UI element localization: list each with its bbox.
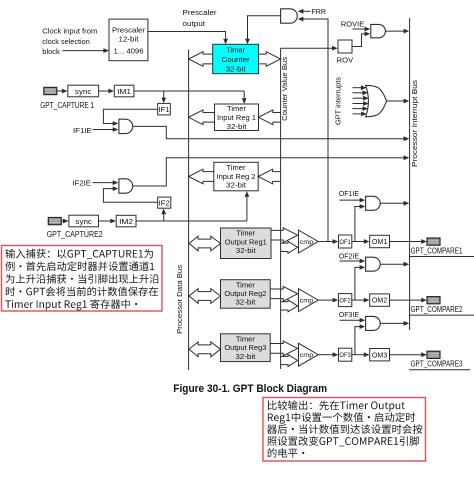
interrupt source 4 (353, 103, 365, 105)
pad GPT_CAPTURE2 (48, 218, 61, 225)
wire into input reg 1 top (243, 91, 245, 99)
svg-text:IF2IE: IF2IE (72, 179, 91, 188)
svg-text:OF1: OF1 (339, 239, 351, 246)
svg-text:cmp: cmp (300, 239, 314, 246)
wire cmp1 to OF1 (318, 241, 333, 243)
svg-text:Figure 30-1. GPT Block Diagram: Figure 30-1. GPT Block Diagram (173, 383, 327, 395)
svg-text:ROV: ROV (337, 56, 354, 65)
svg-text:clock selection: clock selection (42, 37, 90, 46)
bus arrow counter value to input reg 1 (259, 110, 281, 125)
pad GPT_COMPARE1 (427, 238, 440, 245)
or-gate GPT interrupts (366, 85, 387, 116)
svg-text:IF2: IF2 (159, 199, 170, 208)
bus arrow input reg 2 to data bus (189, 169, 214, 184)
svg-text:32-bit: 32-bit (226, 64, 247, 73)
svg-text:Counter Value Bus: Counter Value Bus (280, 57, 289, 121)
svg-text:32-bit: 32-bit (235, 352, 256, 361)
wire FRR (302, 10, 311, 12)
svg-text:block: block (42, 47, 60, 56)
svg-text:IM1: IM1 (117, 87, 131, 96)
svg-text:IF1: IF1 (159, 105, 170, 114)
svg-text:Prescaler: Prescaler (183, 8, 217, 17)
svg-text:FRR: FRR (312, 7, 327, 16)
wire clock to prescaler (62, 50, 104, 52)
svg-text:Processor Data Bus: Processor Data Bus (175, 265, 184, 334)
wire OF1 output up to gate (355, 207, 361, 242)
gate ROV AND ROVIE (371, 24, 386, 37)
gate OF3 AND OF3IE (366, 316, 381, 330)
svg-text:GPT_CAPTURE2: GPT_CAPTURE2 (47, 230, 103, 239)
wire IF1 to gate (103, 109, 157, 123)
svg-text:OF1IE: OF1IE (339, 189, 359, 198)
svg-text:OF3IE: OF3IE (339, 310, 359, 319)
svg-text:sync: sync (75, 87, 92, 96)
svg-text:Timer: Timer (227, 163, 246, 172)
annotation box: compare output (Chinese) (263, 398, 426, 462)
timer output reg3 (221, 334, 271, 362)
svg-text:Timer: Timer (226, 46, 245, 55)
comparator cmp3 (299, 343, 319, 366)
OM1 box (370, 235, 390, 247)
svg-text:IF1IE: IF1IE (73, 126, 92, 135)
svg-text:12-bit: 12-bit (119, 35, 140, 44)
svg-text:1... 4096: 1... 4096 (114, 46, 144, 55)
counter value bus line (280, 48, 282, 369)
wire IF1IE to gate (93, 129, 114, 131)
svg-text:OF3: OF3 (339, 352, 351, 359)
svg-text:Counter: Counter (222, 55, 250, 64)
comparator cmp1 (299, 230, 319, 253)
OM3 box (370, 349, 390, 361)
pad GPT_CAPTURE 1 (44, 87, 57, 94)
OM2 box (370, 294, 390, 306)
bus arrow output reg2 to cmp2 (270, 286, 297, 301)
bus arrow counter value to input reg 2 (258, 169, 280, 184)
wire compare2 interrupt to bus (380, 263, 404, 265)
wire IM2 up to IF2 (163, 213, 165, 221)
gate OF1 AND OF1IE (366, 196, 381, 210)
wire compare3 interrupt to bus (380, 322, 404, 324)
wire sync1 to IM1 (99, 90, 110, 92)
wire rov interrupt to bus (385, 30, 404, 32)
OF3 box (339, 348, 352, 361)
svg-text:Prescaler: Prescaler (112, 25, 145, 34)
wire OF1 to OM1 (352, 241, 365, 243)
svg-text:32-bit: 32-bit (226, 181, 247, 190)
wire OF2 output up to gate (355, 267, 361, 300)
wire OM2 to pad (390, 299, 423, 301)
gate OF2 AND OF2IE (366, 257, 381, 271)
processor data bus line (188, 49, 190, 370)
svg-text:Clock input from: Clock input from (42, 27, 97, 36)
svg-text:GPT_CAPTURE 1: GPT_CAPTURE 1 (40, 101, 94, 110)
wire OF1IE to gate (340, 199, 361, 201)
svg-text:sync: sync (75, 217, 92, 226)
svg-text:OM1: OM1 (372, 237, 388, 246)
interrupt source 2 (353, 92, 364, 94)
wire compare-match feedback to FRR gate (302, 19, 328, 242)
svg-text:output: output (183, 19, 206, 28)
interrupt source 3 (353, 97, 365, 99)
wire IF2 to gate (103, 189, 157, 203)
bus arrow counter value to cmp2 (281, 300, 298, 312)
svg-text:OF2: OF2 (339, 297, 351, 304)
wire branch to IF1 (163, 91, 165, 99)
wire compare1 interrupt to bus (380, 202, 404, 204)
bus arrow input reg 1 to data bus (189, 110, 215, 125)
wire pad2 to sync2 (61, 220, 64, 222)
wire counter overflow to ROV (281, 47, 333, 49)
interrupt source 1 (353, 87, 362, 89)
svg-text:Timer: Timer (236, 229, 255, 238)
IM1 box (114, 85, 134, 97)
wire OF2 to OM2 (352, 299, 365, 301)
svg-text:Timer: Timer (236, 280, 255, 289)
wire prescaler output (148, 32, 226, 40)
wire sync2 to IM2 (99, 220, 112, 222)
wire IM2 to input reg 2 (136, 220, 247, 222)
IM2 box (116, 215, 136, 227)
OF2 box (339, 294, 352, 307)
sync block 2 (69, 215, 99, 227)
svg-text:GPT_COMPARE2: GPT_COMPARE2 (411, 305, 463, 314)
wire IM1 to input reg 1 (134, 90, 244, 92)
pad GPT_COMPARE3 (427, 351, 440, 358)
svg-text:GPT_COMPARE1: GPT_COMPARE1 (411, 246, 463, 255)
timer output reg1 (221, 228, 272, 259)
wire OF3IE to gate (340, 319, 361, 321)
timer input reg 1 (215, 104, 259, 131)
wire ROVIE to gate (353, 28, 366, 30)
gate IF2 AND IF2IE (119, 179, 133, 193)
bus arrow counter to data bus (189, 52, 213, 67)
wire OF3 output up to gate (355, 327, 361, 355)
line under GPT_COMPARE2 (409, 314, 474, 316)
wire into input reg 2 bottom (246, 196, 248, 222)
svg-text:OM2: OM2 (372, 296, 388, 305)
timer output reg2 (221, 280, 271, 309)
ROV box (338, 40, 352, 53)
wire capture2 interrupt to bus (133, 158, 404, 186)
bus arrow counter value to cmp3 (281, 355, 298, 367)
line under GPT_COMPARE3 (409, 369, 470, 371)
svg-text:ROVIE: ROVIE (341, 20, 364, 29)
svg-text:cmp: cmp (300, 352, 314, 359)
wire IF2IE to gate (93, 182, 114, 184)
bus arrow output reg3 bidirectional (189, 342, 220, 357)
svg-text:Processor Interrupt Bus: Processor Interrupt Bus (410, 80, 419, 167)
bus arrow output reg1 bidirectional (189, 236, 220, 251)
svg-text:GPT interrupts: GPT interrupts (334, 77, 343, 125)
svg-text:Timer: Timer (236, 334, 255, 343)
svg-text:Timer: Timer (227, 104, 246, 113)
wire or-gate output to interrupt bus (387, 100, 405, 102)
wire cmp2 to OF2 (318, 299, 333, 301)
wire OM1 to pad (390, 241, 423, 243)
gate FRR (restart control) (281, 9, 298, 23)
sync block 1 (68, 85, 99, 97)
interrupt source 5 (353, 108, 364, 110)
svg-text:32-bit: 32-bit (236, 246, 257, 255)
svg-text:OF2IE: OF2IE (339, 252, 359, 261)
svg-text:32-bit: 32-bit (227, 122, 248, 131)
wire OF2IE to gate (340, 260, 361, 262)
IF2 box (158, 197, 171, 208)
annotation box: input capture (Chinese) (2, 246, 163, 312)
svg-text:cmp: cmp (300, 298, 314, 305)
wire ROV to gate (352, 34, 365, 47)
interrupt source 6 (353, 113, 363, 115)
line under GPT_COMPARE1 (409, 256, 474, 258)
gate IF1 AND IF1IE (119, 119, 133, 133)
bus arrow counter to counter value bus (259, 52, 281, 67)
wire OF3 to OM3 (352, 354, 365, 356)
bus arrow output reg1 to cmp1 (271, 228, 298, 243)
svg-text:32-bit: 32-bit (235, 298, 256, 307)
bus arrow output reg2 bidirectional (189, 289, 220, 304)
svg-text:GPT_COMPARE3: GPT_COMPARE3 (411, 360, 463, 369)
comparator cmp2 (299, 289, 319, 312)
bus arrow counter value to cmp1 (281, 241, 298, 253)
wire pad1 to sync (57, 90, 63, 92)
timer input reg 2 (214, 162, 258, 191)
wire cmp3 to OF3 (318, 354, 333, 356)
svg-text:IM2: IM2 (119, 217, 133, 226)
OF1 box (339, 235, 352, 248)
timer counter 32-bit (highlighted) (213, 44, 259, 73)
svg-text:OM3: OM3 (372, 350, 388, 359)
wire FRR gate output to counter (248, 16, 281, 40)
processor interrupt bus line (409, 18, 411, 330)
prescaler block (109, 19, 148, 61)
bus arrow output reg3 to cmp3 (270, 341, 297, 356)
wire OM3 to pad (390, 354, 423, 356)
pad GPT_COMPARE2 (427, 297, 440, 304)
IF1 box (158, 103, 171, 115)
wire capture1 interrupt to bus (133, 126, 405, 138)
